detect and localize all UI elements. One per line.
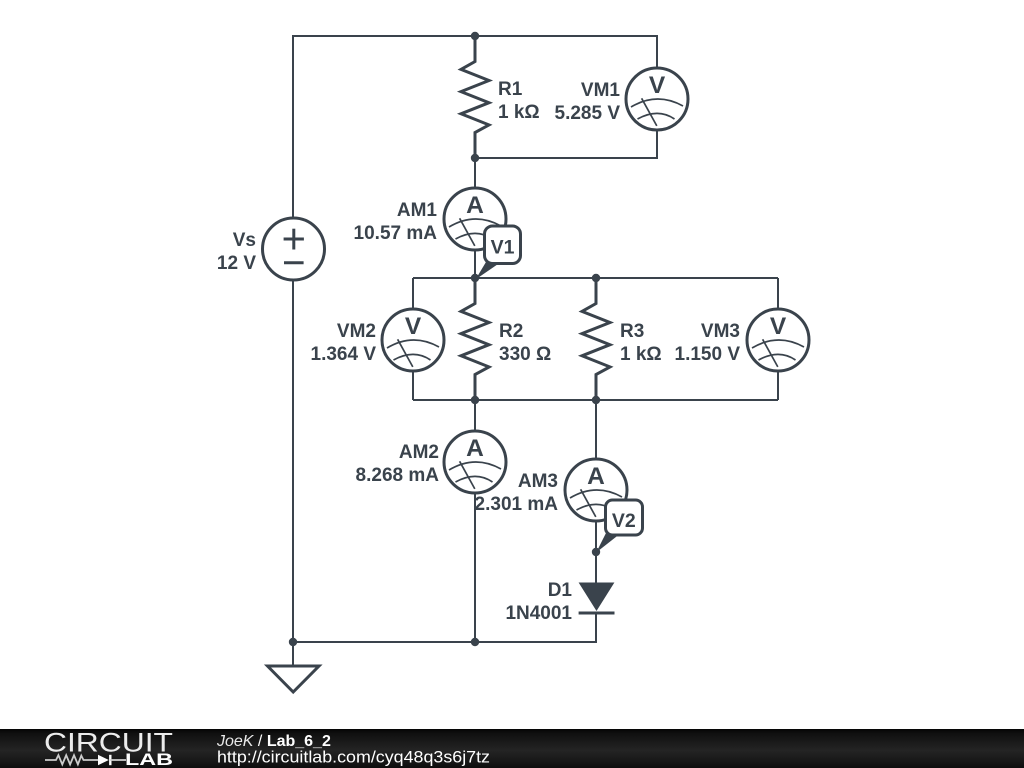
svg-text:330 Ω: 330 Ω (499, 344, 551, 365)
junction node R3 bottom (592, 396, 600, 404)
label R2 330 Ohm (499, 321, 551, 365)
voltmeter VM1 (626, 68, 688, 130)
svg-text:VM3: VM3 (701, 321, 740, 342)
svg-text:VM1: VM1 (581, 80, 621, 101)
svg-text:10.57 mA: 10.57 mA (354, 223, 438, 244)
resistor R2 (461, 278, 489, 400)
junction node V1 on middle rail (471, 274, 479, 282)
footer url (217, 748, 490, 767)
svg-text:LAB: LAB (125, 751, 173, 768)
svg-text:R3: R3 (620, 321, 644, 342)
wire AM2 column to ground rail (474, 400, 476, 642)
label VM1 5.285 V (555, 80, 621, 124)
svg-text:V2: V2 (612, 510, 636, 532)
wire diode to ground rail (293, 613, 596, 642)
wire VM3 column (777, 278, 779, 400)
diode D1 (579, 583, 615, 613)
junction node at R1 bottom (471, 154, 479, 162)
footer author title JoeK / Lab_6_2 (216, 733, 331, 750)
ground symbol (268, 642, 320, 692)
CircuitLab logo CIRCUIT (44, 728, 173, 758)
ammeter AM1 (444, 188, 506, 250)
label R1 1 kOhm (498, 79, 540, 123)
label D1 1N4001 (505, 580, 572, 624)
svg-text:AM1: AM1 (397, 200, 438, 221)
wire AM3 column to diode (595, 400, 597, 583)
voltmeter VM3 (747, 309, 809, 371)
svg-text:http://circuitlab.com/cyq48q3s: http://circuitlab.com/cyq48q3s6j7tz (217, 748, 490, 767)
node annotation V2 (596, 500, 642, 553)
label VM3 1.150 V (675, 321, 741, 365)
wire top rail from Vs to VM1 (293, 36, 657, 218)
wire Vs bottom to ground rail (292, 280, 294, 642)
node annotation V1 (476, 226, 521, 280)
junction node AM2 ground rail (471, 638, 479, 646)
label Vs 12 V (217, 230, 256, 274)
wire VM1 bottom to R1 bottom node (475, 130, 657, 158)
wire VM2 column (412, 278, 414, 400)
svg-text:1.364 V: 1.364 V (311, 344, 377, 365)
junction node V2 above diode (592, 548, 600, 556)
junction node R3 top (592, 274, 600, 282)
ammeter AM3 (565, 459, 627, 521)
label AM2 8.268 mA (356, 442, 440, 486)
svg-text:VM2: VM2 (337, 321, 376, 342)
label AM1 10.57 mA (354, 200, 438, 244)
svg-text:AM2: AM2 (399, 442, 439, 463)
svg-text:1 kΩ: 1 kΩ (620, 344, 662, 365)
svg-text:1.150 V: 1.150 V (675, 344, 741, 365)
label R3 1 kOhm (620, 321, 662, 365)
ammeter AM2 (444, 431, 506, 493)
svg-text:5.285 V: 5.285 V (555, 103, 621, 124)
CircuitLab logo resistor-diode glyph (45, 755, 126, 765)
label AM3 2.301 mA (475, 471, 559, 515)
CircuitLab logo LAB (125, 751, 173, 768)
voltage source Vs (263, 218, 325, 280)
voltmeter VM2 (382, 309, 444, 371)
svg-text:AM3: AM3 (518, 471, 558, 492)
resistor R3 (582, 278, 610, 400)
wire lower rail (413, 399, 778, 401)
svg-text:Vs: Vs (233, 230, 256, 251)
svg-text:D1: D1 (548, 580, 573, 601)
wire middle rail (413, 277, 778, 279)
wire AM1 column from R1 node to middle rail (474, 158, 476, 278)
svg-text:R2: R2 (499, 321, 523, 342)
svg-text:8.268 mA: 8.268 mA (356, 465, 440, 486)
svg-text:1 kΩ: 1 kΩ (498, 102, 540, 123)
svg-text:12 V: 12 V (217, 253, 256, 274)
footer bar (0, 729, 1024, 768)
junction node R2 bottom (471, 396, 479, 404)
svg-text:1N4001: 1N4001 (505, 603, 572, 624)
resistor R1 (461, 36, 489, 158)
svg-text:2.301 mA: 2.301 mA (475, 494, 559, 515)
svg-text:V1: V1 (491, 237, 515, 259)
junction node at top rail / R1 (471, 32, 479, 40)
label VM2 1.364 V (311, 321, 377, 365)
svg-text:R1: R1 (498, 79, 523, 100)
junction node ground (289, 638, 297, 646)
